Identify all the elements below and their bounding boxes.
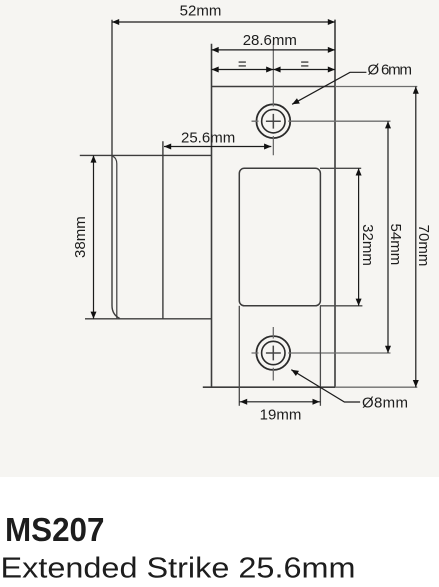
- svg-text:25.6mm: 25.6mm: [181, 130, 235, 147]
- strike plate left edge: [211, 44, 213, 387]
- svg-text:52mm: 52mm: [180, 3, 222, 20]
- svg-text:=: =: [300, 56, 309, 73]
- svg-text:Ø8mm: Ø8mm: [362, 394, 408, 411]
- lock cutout rounded rect: [239, 168, 320, 305]
- svg-text:54mm: 54mm: [387, 224, 404, 266]
- bottom hole vertical centerline: [272, 327, 274, 381]
- lip bottom edge: [85, 318, 212, 320]
- dimension 32mm line: [358, 168, 360, 305]
- svg-text:28.6mm: 28.6mm: [243, 32, 297, 49]
- dimension 38mm line: [93, 155, 95, 318]
- leader diameter 8mm: [291, 370, 360, 402]
- 19mm left extension line: [238, 306, 240, 406]
- lip outer left edge (with 52mm extension above): [112, 20, 120, 319]
- svg-text:Extended Strike 25.6mm: Extended Strike 25.6mm: [1, 553, 356, 585]
- cutout top edge extension to 32mm dim: [320, 167, 361, 169]
- lip bend tangent line: [113, 156, 117, 318]
- dimension 28.6mm line: [212, 49, 336, 51]
- svg-text:=: =: [238, 56, 247, 73]
- bottom hole horizontal centerline + 54mm extension: [252, 352, 391, 354]
- svg-text:32mm: 32mm: [359, 224, 376, 266]
- top hole center mark: [266, 114, 281, 129]
- strike plate top edge: [212, 86, 336, 88]
- top hole vertical centerline: [272, 44, 274, 155]
- lip inner edge (with 25.6mm extension above): [162, 141, 164, 318]
- svg-text:70mm: 70mm: [415, 225, 432, 267]
- bottom hole inner circle: [262, 341, 285, 364]
- lip top edge: [80, 154, 212, 156]
- top hole outer circle: [256, 104, 290, 138]
- bottom edge extension to 70mm dim: [335, 386, 417, 388]
- dimension 25.6mm line: [164, 146, 271, 148]
- dimension 19mm line: [239, 401, 320, 403]
- top hole horizontal centerline + 54mm extension: [252, 120, 391, 122]
- svg-text:38mm: 38mm: [72, 216, 89, 258]
- bottom hole outer circle: [256, 336, 290, 370]
- top edge extension to 70mm dim: [335, 86, 417, 88]
- dimension 52mm line: [112, 21, 335, 23]
- svg-text:19mm: 19mm: [260, 406, 302, 423]
- 19mm right extension line: [319, 306, 321, 406]
- top hole inner circle: [262, 110, 285, 133]
- strike plate right edge: [334, 20, 336, 388]
- dimension equal-right line: [273, 69, 335, 71]
- dimension equal-left line: [212, 69, 274, 71]
- leader diameter 6mm: [292, 72, 366, 104]
- dimension 70mm line: [415, 87, 417, 388]
- dimension 54mm line: [387, 121, 389, 353]
- strike plate bottom edge: [203, 386, 335, 388]
- bottom hole center mark: [266, 346, 281, 361]
- svg-text:Ø 6mm: Ø 6mm: [368, 62, 413, 79]
- svg-text:MS207: MS207: [5, 512, 105, 549]
- cutout bottom edge extension to 32mm dim: [320, 305, 362, 307]
